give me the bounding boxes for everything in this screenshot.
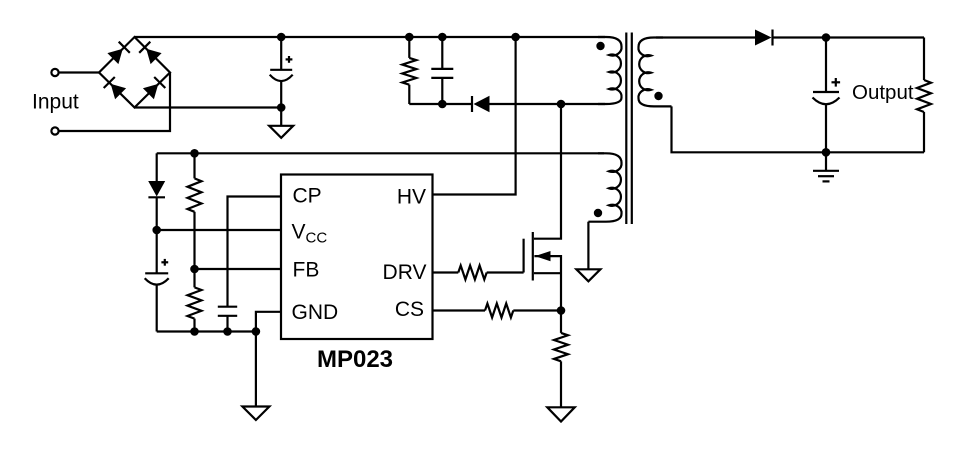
svg-text:FB: FB (293, 259, 320, 282)
snubber resistor R1 (408, 37, 410, 58)
ground (controller) (242, 407, 269, 421)
node: top rail / snubber C (438, 33, 447, 42)
op-amp U1 MP023 box (281, 175, 433, 340)
svg-text:MP023: MP023 (317, 346, 393, 373)
bridge rectifier diamond (99, 37, 170, 108)
sense resistor R7 (560, 311, 562, 333)
Vcc capacitor C4 (145, 272, 168, 274)
wire HV riser (433, 37, 516, 195)
wire FB pin (195, 268, 282, 270)
transformer secondary winding (638, 38, 671, 107)
ground (input bulk) (280, 108, 282, 126)
wire DRV pin (433, 271, 459, 273)
channel bar (532, 232, 534, 281)
ground (aux winding) (576, 269, 600, 281)
input terminal top (51, 69, 58, 76)
wire diode to output corner (772, 36, 925, 38)
wire analog ground rail (157, 330, 256, 332)
node: Vcc (152, 226, 161, 235)
wire bridge negative rail (135, 106, 282, 108)
wire snubber bottom (409, 103, 472, 105)
wire CS pin (433, 309, 486, 311)
svg-text:DRV: DRV (383, 261, 427, 284)
plus sign C5 (832, 81, 841, 83)
wire CP pin (228, 197, 282, 307)
plus sign C1 (286, 58, 293, 60)
aux polarity dot (594, 209, 602, 217)
body connection with arrow (534, 256, 561, 310)
node: drain wire / primary bottom (557, 100, 566, 109)
node: rail / R3 (190, 327, 199, 336)
capacitor C1 (bulk) (280, 37, 282, 70)
primary polarity dot (596, 42, 604, 50)
node: snubber bottom junction (438, 100, 447, 109)
divider resistor R2 (upper) (193, 153, 195, 178)
svg-text:GND: GND (292, 301, 339, 324)
snubber capacitor C2 (441, 37, 443, 69)
node: rail / GND (252, 327, 261, 336)
node: output bottom / cap (822, 148, 831, 157)
wire output bottom (672, 106, 925, 152)
svg-text:Input: Input (32, 90, 79, 113)
wire Vcc pin (157, 229, 281, 231)
transformer aux winding (588, 153, 621, 221)
CP capacitor C3 (218, 306, 237, 308)
divider resistor R3 (lower) (188, 287, 202, 318)
Vcc diode D7 (pointing down) (156, 153, 158, 181)
svg-text:CS: CS (395, 298, 424, 321)
input terminal bottom (51, 127, 58, 134)
wire secondary top to diode (656, 36, 755, 38)
output capacitor C5 (825, 38, 827, 93)
bridge diode D4 (lower-right edge) (143, 84, 158, 99)
bridge diode D1 (lower-left edge) (111, 84, 126, 99)
wire input bottom to bridge right (59, 73, 170, 132)
transformer core (625, 33, 627, 225)
CS resistor R6 (485, 304, 513, 318)
node: Vcc rail / divider (190, 149, 199, 158)
node: top rail / C1 (277, 33, 286, 42)
earth ground (output) (825, 152, 827, 171)
wire Vcc rail (157, 152, 604, 154)
ground (sense) (547, 407, 574, 421)
svg-text:CP: CP (293, 185, 322, 208)
node: top rail / snubber R (405, 33, 414, 42)
snubber diode D5 (pointing left) (471, 96, 473, 112)
svg-text:HV: HV (397, 186, 426, 209)
gate resistor R4 (458, 266, 486, 280)
node: FB (190, 265, 199, 274)
drain connection (534, 104, 561, 239)
load resistor R5 (923, 38, 925, 81)
transformer primary winding (598, 37, 622, 104)
gate bar (522, 239, 524, 273)
node: top rail / HV riser (511, 33, 520, 42)
wire GND to ground (255, 332, 257, 407)
output diode D6 (755, 30, 772, 46)
wire diode to primary bottom (490, 103, 606, 105)
wire top rail (bridge + output to primary winding) (135, 36, 606, 38)
node: output top / cap (822, 33, 831, 42)
bridge diode D3 (upper-right edge) (146, 49, 161, 64)
secondary polarity dot (654, 92, 662, 100)
bridge diode D2 (upper-left edge) (107, 49, 122, 64)
plus sign C4 (161, 261, 168, 263)
node: bridge rail / C1 (277, 103, 286, 112)
wire input top to bridge left (59, 71, 99, 73)
node: rail / C3 (223, 327, 232, 336)
wire aux to ground (587, 222, 589, 270)
node: CS / source (557, 306, 566, 315)
wire GND pin (256, 312, 281, 332)
source connection (534, 272, 561, 274)
svg-text:Output: Output (852, 81, 914, 104)
